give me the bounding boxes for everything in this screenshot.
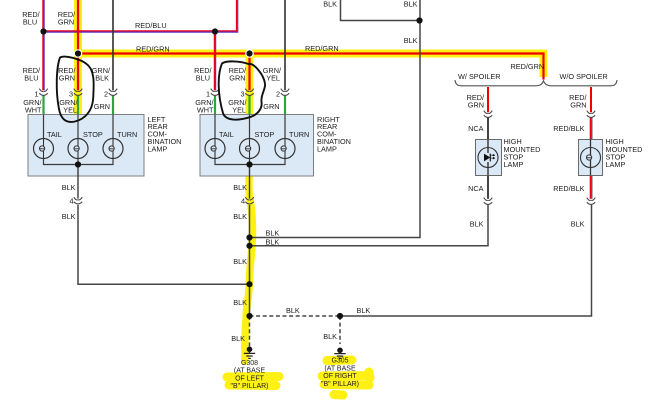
svg-text:2: 2 xyxy=(276,89,280,98)
svg-text:GRN: GRN xyxy=(94,102,110,111)
svg-text:(AT BASE: (AT BASE xyxy=(234,368,266,375)
pin number 4 right xyxy=(241,196,245,205)
svg-text:"B" PILLAR): "B" PILLAR) xyxy=(230,383,268,390)
svg-text:2: 2 xyxy=(104,89,108,98)
wire RED/BLU vertical right lamp pin1 xyxy=(214,32,215,91)
svg-text:YEL: YEL xyxy=(266,74,280,83)
svg-text:BLK: BLK xyxy=(266,228,280,237)
svg-text:BLK: BLK xyxy=(62,183,76,192)
box left rear combination lamp xyxy=(28,115,144,177)
svg-text:W/ SPOILER: W/ SPOILER xyxy=(458,72,501,81)
svg-text:RED/BLK: RED/BLK xyxy=(553,184,584,193)
label BLK top elbow xyxy=(323,0,337,9)
box right rear combination lamp xyxy=(200,115,314,177)
bulb TAIL left xyxy=(34,139,54,159)
svg-text:1: 1 xyxy=(206,89,210,98)
junction node A BLK xyxy=(246,234,252,240)
svg-text:STOP: STOP xyxy=(83,130,103,139)
svg-text:TURN: TURN xyxy=(289,130,309,139)
label BLK lower drop xyxy=(233,298,247,307)
label HIGH MOUNTED STOP LAMP w spoiler xyxy=(504,137,541,169)
label BLK mid drop xyxy=(233,257,247,266)
svg-text:RED/BLU: RED/BLU xyxy=(135,21,167,30)
label BLK G305 drop xyxy=(323,332,337,341)
connector pin4 right lamp xyxy=(245,197,253,204)
connector w/o spoiler bottom xyxy=(587,198,595,205)
label BLK right lamp ground upper xyxy=(233,183,247,192)
svg-text:BLU: BLU xyxy=(23,18,37,27)
svg-text:G308: G308 xyxy=(241,360,258,367)
connector w spoiler top xyxy=(484,111,492,118)
svg-text:BLK: BLK xyxy=(571,219,585,228)
svg-text:GRN: GRN xyxy=(570,101,586,110)
svg-text:GRN: GRN xyxy=(468,101,484,110)
connector pin3 right xyxy=(245,89,253,96)
annotation loop left lamp pin3 xyxy=(57,57,94,122)
label BLK line B xyxy=(266,238,280,247)
svg-text:BLK: BLK xyxy=(286,306,300,315)
ground G308 symbol xyxy=(244,347,255,359)
svg-text:BLK: BLK xyxy=(233,212,247,221)
svg-text:G305: G305 xyxy=(331,358,348,365)
wire RED/BLK below w/o spoiler lamp xyxy=(590,176,591,199)
label GRN/BLK pin2 left xyxy=(92,66,111,83)
svg-text:3: 3 xyxy=(240,89,244,98)
junction node B BLK xyxy=(246,243,252,249)
highlighter RED/GRN vertical right lamp xyxy=(246,54,254,118)
label HIGH MOUNTED STOP LAMP w/o spoiler xyxy=(606,137,643,169)
wire BLK dashed drop to G305 xyxy=(339,316,341,344)
pin number 3 right xyxy=(240,89,244,98)
svg-text:WHT: WHT xyxy=(197,105,214,114)
svg-text:GRN: GRN xyxy=(263,102,279,111)
label BLK right lamp ground lower xyxy=(233,212,247,221)
brace spoiler options xyxy=(455,80,617,86)
svg-text:NCA: NCA xyxy=(468,124,484,133)
svg-text:BLK: BLK xyxy=(233,257,247,266)
wire BLK dashed horizontal to G305 node xyxy=(250,315,341,317)
label GRN/YEL right below xyxy=(228,98,247,114)
label GRN/WHT left xyxy=(23,98,42,114)
wire BLK top elbow xyxy=(341,0,420,21)
label RED/GRN w/o spoiler xyxy=(569,93,587,110)
label RED/BLU pin1 left xyxy=(23,66,41,83)
label RED/BLU top left xyxy=(22,10,40,27)
bulb STOP left xyxy=(68,139,88,159)
wire BLK w/o spoiler lamp ground xyxy=(340,205,592,316)
highlighter patch OF RIGHT B PILLAR xyxy=(322,372,370,395)
wire BLK right lamp ground main drop xyxy=(249,165,251,317)
svg-text:LAMP: LAMP xyxy=(606,160,626,169)
wire GRN/WHT stub right pin1 xyxy=(214,96,216,115)
svg-text:3: 3 xyxy=(69,89,73,98)
bulb STOP right xyxy=(240,139,260,159)
label BLK left lamp ground lower xyxy=(62,212,76,221)
svg-text:WHT: WHT xyxy=(25,105,42,114)
wire GRN/YEL right lamp pin2 from top xyxy=(284,0,286,90)
label RED/GRN at corner xyxy=(511,62,545,71)
wire BLK high mounted stop lamp w/spoiler ground xyxy=(252,205,488,246)
svg-text:BLU: BLU xyxy=(196,74,210,83)
wire RED/BLK to w/o spoiler lamp xyxy=(590,118,591,140)
left lamp internal wires and bus xyxy=(44,115,114,165)
connector pin1 right xyxy=(211,89,219,96)
pin number 4 left xyxy=(69,196,73,205)
wire GRN/BLK left lamp pin2 from top xyxy=(112,0,114,90)
label RED/BLK upper xyxy=(553,124,584,133)
wire RED/GRN w spoiler branch xyxy=(487,87,489,112)
svg-text:STOP: STOP xyxy=(255,130,275,139)
wire RED/GRN horizontal main run xyxy=(78,54,544,80)
svg-text:NCA: NCA xyxy=(468,184,484,193)
bulb TURN right xyxy=(275,139,295,159)
LED w spoiler lamp U1 xyxy=(478,140,498,176)
label NCA upper xyxy=(468,124,484,133)
label BLK dashed horizontal xyxy=(286,306,300,315)
wire GRN/YEL stub left pin3 xyxy=(77,96,79,115)
label GRN right xyxy=(263,102,279,111)
label BLK below top node xyxy=(404,36,418,45)
svg-text:4: 4 xyxy=(241,196,245,205)
label TAIL right xyxy=(219,130,234,139)
label W/ SPOILER xyxy=(458,72,501,81)
label STOP right xyxy=(255,130,275,139)
label TAIL left xyxy=(47,130,62,139)
label RED/BLU horizontal xyxy=(135,21,167,30)
svg-text:BLK: BLK xyxy=(266,238,280,247)
svg-text:BLK: BLK xyxy=(404,36,418,45)
label BLK top right xyxy=(404,0,418,9)
label GRN/YEL left below xyxy=(59,98,78,114)
svg-text:RED/GRN: RED/GRN xyxy=(136,45,170,54)
connector pin1 left xyxy=(39,89,47,96)
svg-text:W/O SPOILER: W/O SPOILER xyxy=(560,72,608,81)
pin number 1 right xyxy=(206,89,210,98)
label W/O SPOILER xyxy=(560,72,608,81)
wire GRN stub right pin2 xyxy=(284,96,286,115)
label ground G308 xyxy=(230,360,268,390)
svg-text:GRN: GRN xyxy=(59,74,75,83)
junction node G305 branch xyxy=(337,313,343,319)
connector w spoiler bottom xyxy=(484,198,492,205)
label BLK G308 drop xyxy=(231,334,245,343)
junction node dashed split xyxy=(246,313,252,319)
wire RED/GRN vertical left lamp pin3 xyxy=(77,0,79,90)
svg-text:BLK: BLK xyxy=(95,74,109,83)
label RED/BLK lower xyxy=(553,184,584,193)
svg-text:BLU: BLU xyxy=(24,74,38,83)
junction node left lamp bus xyxy=(75,161,81,167)
wire NCA below w spoiler lamp xyxy=(487,176,489,199)
svg-text:RED/GRN: RED/GRN xyxy=(511,62,545,71)
svg-text:YEL: YEL xyxy=(232,105,246,114)
label RED/GRN pin3 left xyxy=(58,66,76,83)
pin number 3 left xyxy=(69,89,73,98)
wire GRN stub left pin2 xyxy=(112,96,114,115)
junction node RED/GRN right xyxy=(245,49,254,58)
label GRN/WHT right xyxy=(195,98,214,114)
wire NCA to w spoiler lamp xyxy=(487,118,489,140)
junction node right lamp bus xyxy=(246,161,252,167)
label RIGHT REAR COMBINATION LAMP xyxy=(317,115,351,154)
svg-text:BLK: BLK xyxy=(357,306,371,315)
svg-text:BLK: BLK xyxy=(62,212,76,221)
svg-text:OF RIGHT: OF RIGHT xyxy=(323,373,357,380)
ground G305 symbol xyxy=(334,348,345,359)
svg-text:TAIL: TAIL xyxy=(219,130,234,139)
junction node RED/BLU right xyxy=(212,28,218,34)
svg-text:BLK: BLK xyxy=(404,0,418,9)
svg-text:BLK: BLK xyxy=(323,332,337,341)
connector pin2 right xyxy=(281,89,289,96)
label GRN/YEL pin2 right xyxy=(263,66,282,83)
wire RED/GRN vertical right lamp pin3 xyxy=(248,54,250,91)
svg-text:BLK: BLK xyxy=(233,298,247,307)
wire BLK from top down to junction A xyxy=(252,0,420,238)
box high mounted stop lamp w/o spoiler xyxy=(579,140,603,176)
label LEFT REAR COMBINATION LAMP xyxy=(148,115,182,154)
wire BLK dashed to G308 xyxy=(249,316,251,348)
bulb TAIL right xyxy=(205,139,225,159)
svg-text:YEL: YEL xyxy=(63,105,77,114)
pin number 1 left xyxy=(34,89,38,98)
junction node RED/BLU left xyxy=(40,28,46,34)
connector pin2 left xyxy=(109,89,117,96)
wire RED/BLU horizontal to top exit xyxy=(43,0,238,32)
highlighter ground wire G308 xyxy=(245,163,253,361)
label NCA lower xyxy=(468,184,484,193)
label TURN left xyxy=(117,130,137,139)
pin number 2 right xyxy=(276,89,280,98)
highlighter RED/GRN corner drop xyxy=(540,50,548,77)
junction node RED/GRN left xyxy=(74,49,83,58)
junction node left lamp ground join xyxy=(246,281,252,287)
svg-text:TURN: TURN xyxy=(117,130,137,139)
svg-text:GRN: GRN xyxy=(229,74,245,83)
connector pin3 left xyxy=(74,89,82,96)
label BLK line A xyxy=(266,228,280,237)
highlighter patch G305 xyxy=(327,356,352,366)
bulb TURN left xyxy=(103,139,123,159)
highlighter patch OF LEFT B PILLAR xyxy=(227,377,279,386)
wire BLK left lamp ground to junction xyxy=(78,165,250,285)
svg-text:"B" PILLAR): "B" PILLAR) xyxy=(321,381,359,388)
label STOP left xyxy=(83,130,103,139)
svg-text:1: 1 xyxy=(34,89,38,98)
label RED/GRN horizontal mid xyxy=(305,44,339,53)
svg-text:RED/GRN: RED/GRN xyxy=(305,44,339,53)
label BLK w/o spoiler ground xyxy=(571,219,585,228)
svg-text:LAMP: LAMP xyxy=(148,144,168,153)
label TURN right xyxy=(289,130,309,139)
svg-text:TAIL: TAIL xyxy=(47,130,62,139)
wire RED/GRN w/o spoiler branch xyxy=(590,87,592,112)
box high mounted stop lamp w spoiler xyxy=(476,140,502,176)
svg-text:4: 4 xyxy=(69,196,73,205)
label RED/BLU pin1 right xyxy=(194,66,212,83)
label BLK w spoiler ground xyxy=(470,219,484,228)
pin number 2 left xyxy=(104,89,108,98)
annotation loop right lamp pin3 xyxy=(219,61,265,119)
svg-text:(AT BASE: (AT BASE xyxy=(324,365,356,372)
svg-text:RED/BLK: RED/BLK xyxy=(553,124,584,133)
label RED/GRN pin3 right xyxy=(229,66,247,83)
right lamp internal wires and bus xyxy=(215,115,285,165)
svg-text:BLK: BLK xyxy=(233,183,247,192)
highlighter RED/GRN vertical left xyxy=(74,0,82,115)
connector w/o spoiler top xyxy=(587,111,595,118)
label ground G305 xyxy=(321,358,359,388)
label BLK solid horizontal xyxy=(357,306,371,315)
wire RED/BLU vertical left lamp pin1 xyxy=(43,0,44,90)
bulb w/o spoiler lamp xyxy=(581,140,601,176)
highlighter RED/GRN horizontal main xyxy=(74,50,547,58)
label GRN left xyxy=(94,102,110,111)
label BLK left lamp ground upper xyxy=(62,183,76,192)
label RED/GRN top left xyxy=(58,10,76,27)
svg-text:LAMP: LAMP xyxy=(504,160,524,169)
svg-text:OF LEFT: OF LEFT xyxy=(235,375,265,382)
label RED/GRN horizontal left xyxy=(136,45,170,54)
connector pin4 left lamp xyxy=(74,197,82,204)
label RED/GRN w spoiler xyxy=(467,93,485,110)
svg-text:BLK: BLK xyxy=(323,0,337,9)
svg-text:GRN: GRN xyxy=(58,18,74,27)
junction node BLK top xyxy=(416,17,422,23)
svg-text:BLK: BLK xyxy=(231,334,245,343)
wire GRN/WHT stub left pin1 xyxy=(42,96,44,115)
svg-text:LAMP: LAMP xyxy=(317,144,337,153)
svg-text:BLK: BLK xyxy=(470,219,484,228)
wire GRN/YEL stub right pin3 xyxy=(248,96,250,115)
